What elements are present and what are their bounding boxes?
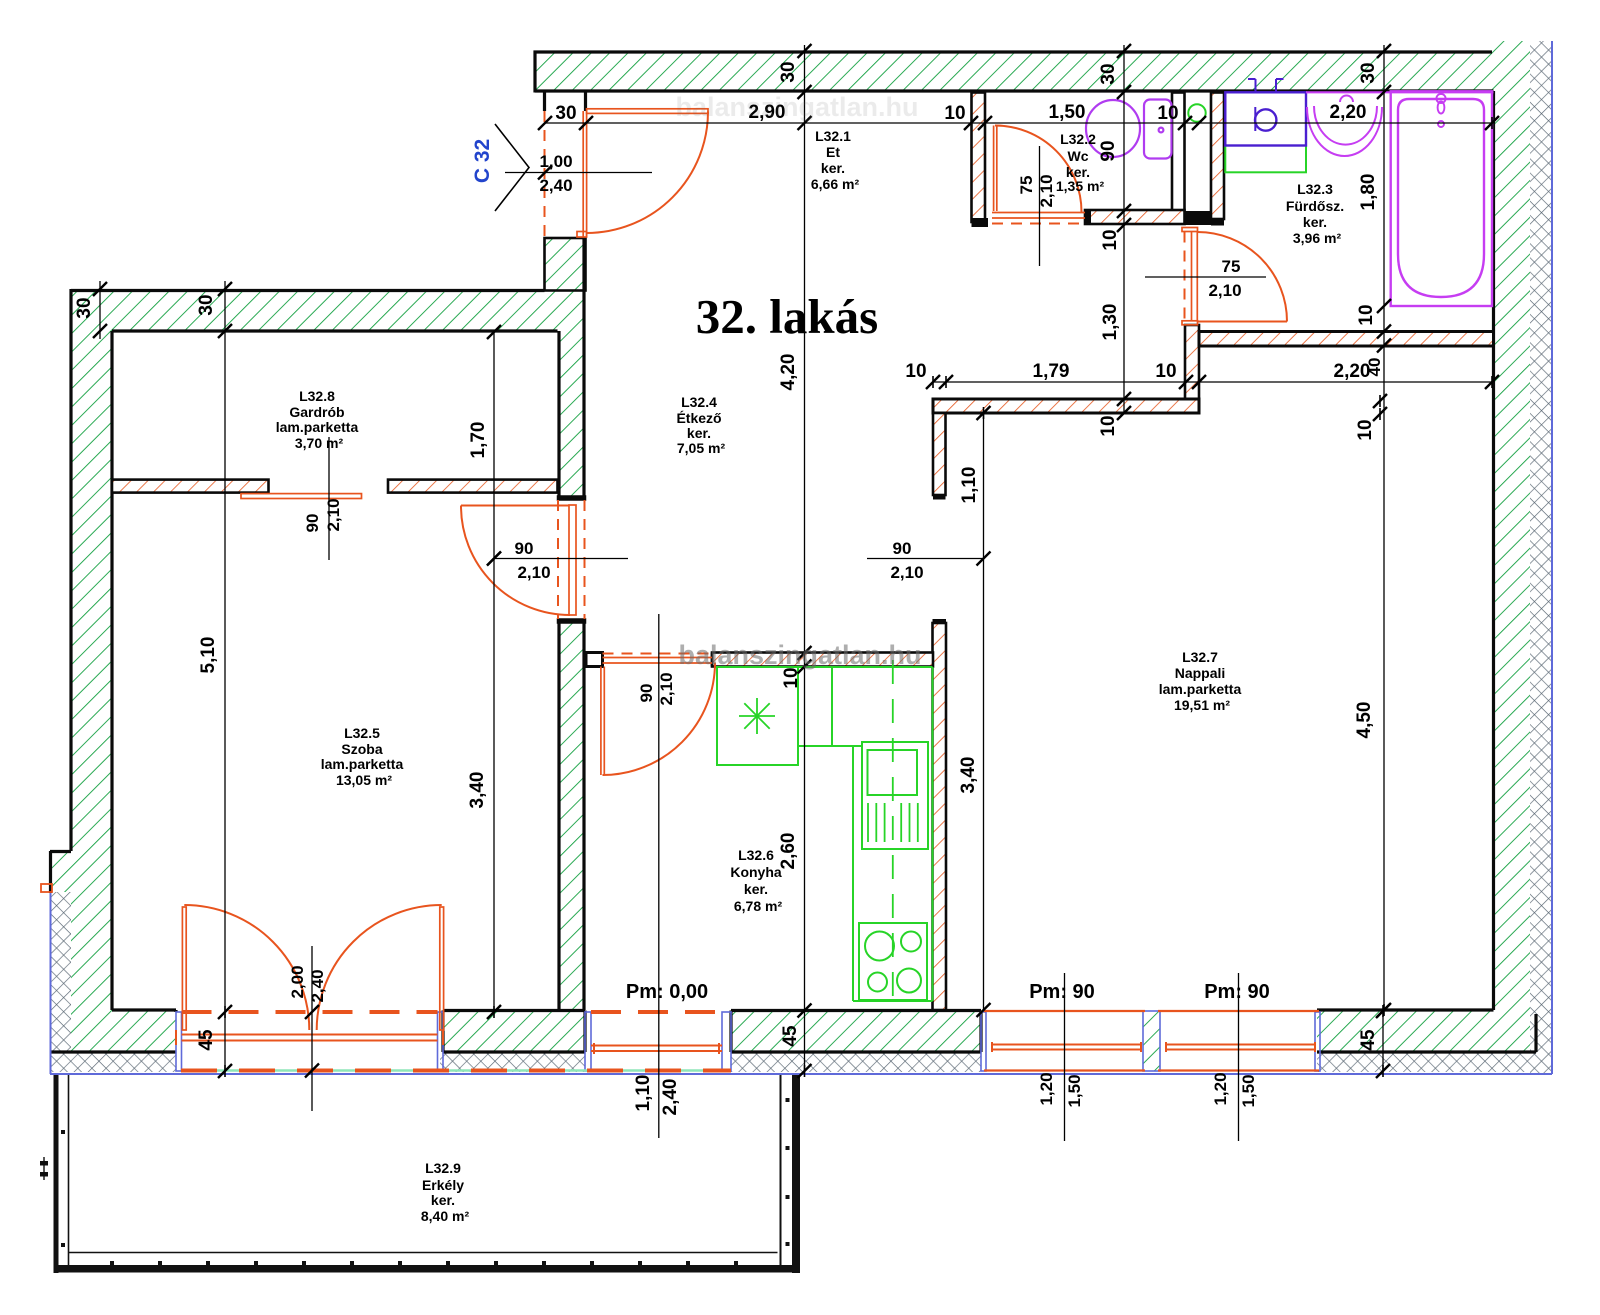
svg-text:30: 30 bbox=[196, 294, 217, 315]
dim line pm90 window1 bbox=[1064, 973, 1066, 1141]
wall left band hatch bbox=[71, 289, 112, 1052]
svg-text:10: 10 bbox=[905, 361, 926, 382]
ticks szoba door dim bbox=[487, 552, 501, 566]
fixture bathtub bbox=[1391, 91, 1492, 306]
door konyha swing arc bbox=[603, 663, 716, 776]
svg-text:Szoba: Szoba bbox=[341, 741, 382, 757]
svg-text:2,10: 2,10 bbox=[1208, 281, 1241, 300]
wall wc right bbox=[1172, 93, 1185, 212]
wall hall-bath column bbox=[1185, 325, 1199, 413]
dim line vertical x1384 bbox=[1383, 45, 1385, 1010]
svg-text:L32.1: L32.1 bbox=[815, 128, 851, 144]
dim line 45 right bbox=[1382, 1011, 1384, 1071]
svg-text:75: 75 bbox=[1017, 176, 1036, 195]
ticks row y382 bbox=[926, 375, 940, 389]
wall konyha right bbox=[933, 619, 947, 1010]
door wc leaf bbox=[993, 126, 995, 212]
blue outer bottom line bbox=[50, 1073, 1552, 1075]
door balcony right swing arc bbox=[317, 905, 442, 1030]
wall entry column outline bbox=[545, 238, 586, 291]
svg-text:32. lakás: 32. lakás bbox=[696, 289, 878, 344]
dim line vertical x983.5 bbox=[983, 413, 985, 1010]
door wc swing arc bbox=[995, 126, 1082, 213]
door konyha leaf bbox=[600, 667, 602, 776]
wall bottom blocks outlines bbox=[443, 1009, 585, 1012]
bathroom green cabinet bbox=[1225, 146, 1306, 173]
svg-text:40: 40 bbox=[1365, 358, 1384, 377]
door szoba open position line bbox=[461, 505, 569, 507]
balcony parapet dots bbox=[110, 1261, 738, 1265]
wall bathroom left bbox=[1211, 93, 1224, 226]
svg-text:1,30: 1,30 bbox=[1100, 304, 1121, 341]
dim line vertical x225 bbox=[224, 281, 226, 1071]
wall left band outlines bbox=[71, 289, 545, 292]
svg-text:2,10: 2,10 bbox=[657, 672, 676, 705]
svg-text:2,20: 2,20 bbox=[1330, 102, 1367, 123]
door entry leaf bbox=[587, 109, 708, 114]
window nappali 2 sill lines bbox=[1166, 1044, 1315, 1046]
svg-text:ker.: ker. bbox=[1303, 214, 1327, 230]
ticks x1124 bbox=[1117, 44, 1131, 58]
insulation left lower crosshatch bbox=[50, 892, 71, 1072]
svg-text:2,10: 2,10 bbox=[324, 498, 343, 531]
dim line left 30 bbox=[99, 281, 101, 339]
blue mullion pier outline bbox=[1143, 1011, 1160, 1071]
svg-text:C 32: C 32 bbox=[471, 139, 494, 183]
wall szoba-etkezo column outline bbox=[557, 331, 560, 496]
svg-text:45: 45 bbox=[780, 1025, 801, 1047]
wall nappali top bbox=[933, 399, 1199, 413]
ticks x983.5 bbox=[977, 406, 991, 420]
svg-text:Fürdősz.: Fürdősz. bbox=[1286, 198, 1344, 214]
svg-text:1,80: 1,80 bbox=[1358, 174, 1379, 211]
door bathroom dashed opening bbox=[1184, 232, 1186, 321]
blue jamb kitchen window left bbox=[585, 1012, 591, 1071]
ticks x804 bbox=[798, 44, 812, 58]
fixture washing machine bbox=[1225, 79, 1306, 146]
wall nappali stub bbox=[933, 413, 946, 500]
balcony right wall bbox=[792, 1075, 800, 1273]
blue jamb nappali window left bbox=[981, 1012, 986, 1071]
svg-text:ker.: ker. bbox=[744, 881, 768, 897]
dim line vertical x1124 bbox=[1123, 45, 1125, 413]
door balcony right leaf bbox=[440, 907, 444, 1030]
balcony facade dashed orange line bbox=[181, 1069, 731, 1073]
ticks right small chain bbox=[1373, 394, 1387, 408]
blue jamb nappali window right bbox=[1315, 1012, 1320, 1071]
svg-text:1,79: 1,79 bbox=[1033, 361, 1070, 382]
svg-text:L32.2: L32.2 bbox=[1060, 131, 1096, 147]
blue jamb kitchen window right bbox=[722, 1012, 731, 1071]
window balcony-door sill lines bbox=[182, 1034, 438, 1036]
svg-text:10: 10 bbox=[1155, 361, 1176, 382]
wall bottom block B hatch bbox=[443, 1012, 585, 1052]
window nappali 2 top line bbox=[1158, 1010, 1319, 1012]
svg-text:1,10: 1,10 bbox=[959, 467, 980, 504]
kitchen counter front edge bbox=[831, 667, 833, 746]
svg-text:6,78 m²: 6,78 m² bbox=[734, 898, 783, 914]
svg-text:8,40 m²: 8,40 m² bbox=[421, 1208, 470, 1224]
svg-text:1,50: 1,50 bbox=[1049, 102, 1086, 123]
svg-text:10: 10 bbox=[1157, 103, 1178, 124]
svg-text:1,50: 1,50 bbox=[1065, 1074, 1084, 1107]
kitchen stove bbox=[859, 923, 927, 1000]
svg-text:Konyha: Konyha bbox=[730, 864, 782, 880]
window nappali 1 bottom line bbox=[984, 1069, 1145, 1071]
wall wc left bbox=[972, 93, 989, 228]
insulation bottom crosshatch bbox=[50, 1052, 176, 1072]
svg-text:Étkező: Étkező bbox=[676, 410, 721, 426]
svg-text:1,50: 1,50 bbox=[1239, 1074, 1258, 1107]
wall gardrob strip right bbox=[388, 480, 558, 493]
window kitchen sill lines bbox=[591, 1045, 722, 1047]
dim line bath door bbox=[1145, 276, 1266, 278]
ticks balcony door bbox=[305, 1005, 319, 1019]
svg-text:10: 10 bbox=[1100, 229, 1121, 250]
wall bathroom bottom bbox=[1199, 332, 1494, 347]
door bathroom open position line bbox=[1198, 321, 1288, 323]
fixture bathroom sink bbox=[1306, 92, 1494, 156]
ticks left 30 bbox=[93, 282, 107, 296]
wall szoba-etkezo column upper hatch bbox=[558, 332, 586, 496]
svg-text:75: 75 bbox=[1222, 257, 1241, 276]
svg-text:L32.6: L32.6 bbox=[738, 847, 774, 863]
balcony bottom parapet bbox=[69, 1252, 778, 1254]
door gardrob sliding leaf bbox=[241, 494, 362, 499]
ticks 45 right bbox=[1376, 1004, 1390, 1018]
svg-text:balanszingatlan.hu: balanszingatlan.hu bbox=[678, 640, 921, 670]
wall entry column hatch bbox=[545, 237, 586, 332]
svg-text:1,35 m²: 1,35 m² bbox=[1056, 178, 1105, 194]
svg-text:30: 30 bbox=[555, 103, 576, 124]
svg-text:3,40: 3,40 bbox=[467, 772, 488, 809]
svg-text:2,40: 2,40 bbox=[308, 969, 327, 1002]
wall gardrob top band hatch bbox=[112, 289, 585, 332]
wall left lower step bbox=[50, 850, 71, 853]
fixture toilet bbox=[1086, 100, 1172, 159]
window kitchen top dashed wall line bbox=[591, 1010, 722, 1014]
blue outer right line bbox=[1551, 41, 1553, 1074]
svg-text:30: 30 bbox=[1098, 63, 1119, 84]
svg-text:L32.4: L32.4 bbox=[681, 394, 717, 410]
svg-text:Erkély: Erkély bbox=[422, 1177, 464, 1193]
svg-text:2,10: 2,10 bbox=[517, 563, 550, 582]
svg-text:13,05 m²: 13,05 m² bbox=[336, 772, 392, 788]
blue outer left lower line bbox=[50, 893, 52, 1074]
dim line vertical x494 bbox=[493, 332, 495, 1012]
dim line nappali door bbox=[867, 558, 984, 560]
svg-text:balanszingatlan.hu: balanszingatlan.hu bbox=[675, 92, 918, 122]
svg-text:5,10: 5,10 bbox=[198, 637, 219, 674]
wall bottom right inner lines bbox=[1317, 1008, 1494, 1011]
svg-text:90: 90 bbox=[303, 514, 322, 533]
door konyha dashed bbox=[603, 653, 713, 655]
wall wc bottom bbox=[1085, 210, 1185, 224]
kitchen counter top edge bbox=[717, 666, 933, 668]
ticks nappali door dim bbox=[977, 552, 991, 566]
balcony facade mint line bbox=[181, 1069, 731, 1071]
svg-text:L32.9: L32.9 bbox=[425, 1160, 461, 1176]
svg-text:Nappali: Nappali bbox=[1175, 665, 1226, 681]
wall konyha top bbox=[712, 653, 933, 667]
ticks top chain bbox=[538, 116, 552, 130]
svg-text:ker.: ker. bbox=[431, 1192, 455, 1208]
window nappali 2 bottom line bbox=[1158, 1069, 1319, 1071]
svg-text:Wc: Wc bbox=[1068, 148, 1089, 164]
svg-text:30: 30 bbox=[74, 297, 95, 318]
svg-text:2,40: 2,40 bbox=[539, 176, 572, 195]
door szoba swing arc bbox=[461, 506, 570, 616]
dim line vertical x804 bbox=[804, 45, 806, 1071]
svg-text:1,70: 1,70 bbox=[468, 422, 489, 459]
svg-text:1,20: 1,20 bbox=[1211, 1072, 1230, 1105]
wall bottom block C hatch bbox=[731, 1012, 981, 1052]
door entry dashed opening bbox=[544, 111, 546, 237]
door bathroom leaf bbox=[1191, 232, 1193, 322]
wall top-right corner hatch bbox=[1492, 41, 1530, 93]
svg-text:90: 90 bbox=[1098, 140, 1119, 161]
svg-text:lam.parketta: lam.parketta bbox=[276, 419, 359, 435]
kitchen table bbox=[717, 667, 798, 765]
svg-text:Gardrób: Gardrób bbox=[289, 404, 344, 420]
svg-text:L32.8: L32.8 bbox=[299, 388, 335, 404]
svg-text:10: 10 bbox=[781, 667, 802, 688]
svg-text:3,40: 3,40 bbox=[958, 757, 979, 794]
door wc dashed bbox=[992, 223, 1085, 225]
svg-text:Pm: 90: Pm: 90 bbox=[1204, 981, 1270, 1003]
dim line konyha door / Pm0 bbox=[658, 614, 660, 1138]
radiator stub left wall bbox=[41, 884, 52, 892]
svg-text:3,70 m²: 3,70 m² bbox=[295, 435, 344, 451]
insulation right crosshatch bbox=[1530, 41, 1551, 1073]
svg-text:Pm: 0,00: Pm: 0,00 bbox=[626, 981, 708, 1003]
ticks entry door dim bbox=[538, 166, 552, 180]
svg-text:45: 45 bbox=[196, 1029, 217, 1051]
svg-text:ker.: ker. bbox=[687, 425, 711, 441]
door bathroom frame ticks bbox=[1182, 228, 1198, 232]
door wc sill bbox=[992, 212, 1085, 214]
wall szoba-konyha column outline bbox=[558, 619, 586, 623]
kitchen fridge-oven unit bbox=[862, 742, 928, 849]
door entry frame bbox=[582, 111, 584, 237]
wall bottom-left corner block hatch bbox=[71, 1010, 176, 1052]
door szoba leaf bbox=[569, 505, 576, 615]
svg-text:4,50: 4,50 bbox=[1354, 702, 1375, 739]
svg-text:L32.3: L32.3 bbox=[1297, 181, 1333, 197]
svg-text:30: 30 bbox=[1358, 62, 1379, 83]
wall top band outline bbox=[534, 50, 1493, 53]
balcony section marker glyph bbox=[40, 1161, 48, 1166]
svg-text:10: 10 bbox=[944, 103, 965, 124]
door szoba dashed opening bbox=[557, 500, 559, 619]
dim line balcony door center bbox=[311, 946, 313, 1111]
svg-text:ker.: ker. bbox=[821, 160, 845, 176]
svg-text:lam.parketta: lam.parketta bbox=[321, 756, 404, 772]
blue jamb balcony door left bbox=[176, 1012, 182, 1071]
dim line gardrob door bbox=[328, 437, 330, 560]
ticks x225 bbox=[218, 282, 232, 296]
door bathroom swing arc bbox=[1198, 232, 1288, 322]
svg-text:4,20: 4,20 bbox=[778, 354, 799, 391]
svg-text:90: 90 bbox=[637, 684, 656, 703]
svg-text:L32.5: L32.5 bbox=[344, 725, 380, 741]
wall szoba-konyha column lower hatch bbox=[558, 623, 586, 1010]
window balcony-door top dashed wall line bbox=[182, 1010, 438, 1014]
dim line entry door bbox=[505, 172, 652, 174]
wall konyha door stub bbox=[586, 653, 603, 667]
svg-text:lam.parketta: lam.parketta bbox=[1159, 681, 1242, 697]
svg-text:L32.7: L32.7 bbox=[1182, 649, 1218, 665]
svg-text:45: 45 bbox=[1358, 1029, 1379, 1051]
svg-text:2,10: 2,10 bbox=[890, 563, 923, 582]
door balcony left leaf bbox=[182, 907, 186, 1030]
svg-text:90: 90 bbox=[515, 539, 534, 558]
ticks x494 bbox=[487, 325, 501, 339]
dim chain top horizontal bbox=[545, 122, 1492, 124]
svg-text:1,20: 1,20 bbox=[1037, 1072, 1056, 1105]
kitchen star symbol bbox=[739, 698, 775, 734]
wall bottom-left corner block bbox=[112, 1008, 176, 1011]
wall gardrob strip left bbox=[112, 480, 269, 493]
dim line pm90 window2 bbox=[1238, 973, 1240, 1141]
green circle shaft symbol bbox=[1188, 104, 1205, 121]
svg-text:2,10: 2,10 bbox=[1037, 174, 1056, 207]
svg-text:Et: Et bbox=[826, 144, 840, 160]
dim line szoba door bbox=[494, 558, 628, 560]
svg-text:1,00: 1,00 bbox=[539, 152, 572, 171]
svg-text:2,40: 2,40 bbox=[660, 1079, 681, 1116]
window mullion pier hatch bbox=[1143, 1011, 1160, 1071]
wall shaft bottom cap bbox=[1185, 211, 1212, 225]
door balcony left swing arc bbox=[184, 905, 309, 1030]
svg-text:2,00: 2,00 bbox=[288, 965, 307, 998]
door konyha sill bbox=[603, 657, 713, 659]
window nappali 1 top line bbox=[984, 1010, 1145, 1012]
wall right band inner line bbox=[1492, 91, 1495, 1010]
door entry swing arc bbox=[587, 112, 709, 234]
svg-text:7,05 m²: 7,05 m² bbox=[677, 440, 726, 456]
svg-text:3,96 m²: 3,96 m² bbox=[1293, 230, 1342, 246]
svg-text:Pm: 90: Pm: 90 bbox=[1029, 981, 1095, 1003]
blue jamb balcony door right bbox=[438, 1012, 444, 1071]
svg-text:10: 10 bbox=[1356, 304, 1377, 325]
wall entry stubs at top band bbox=[543, 93, 546, 112]
dim line wc door bbox=[1039, 146, 1041, 266]
svg-text:90: 90 bbox=[893, 539, 912, 558]
svg-text:1,10: 1,10 bbox=[633, 1075, 654, 1112]
svg-text:6,66 m²: 6,66 m² bbox=[811, 176, 860, 192]
marker chevron bbox=[495, 124, 529, 211]
ticks x1384 bbox=[1377, 44, 1391, 58]
svg-text:10: 10 bbox=[1098, 415, 1119, 436]
window nappali 1 sill lines bbox=[992, 1044, 1141, 1046]
wall top band hatch bbox=[535, 51, 1492, 93]
svg-text:19,51 m²: 19,51 m² bbox=[1174, 697, 1230, 713]
wall bottom-right corner hatch bbox=[1317, 1010, 1536, 1052]
dim chain row y382 bbox=[933, 381, 1492, 383]
svg-text:10: 10 bbox=[1355, 419, 1376, 440]
balcony left wall bbox=[54, 1075, 59, 1273]
kitchen center dashed line bbox=[892, 660, 894, 1006]
svg-text:30: 30 bbox=[778, 61, 799, 82]
wall right band hatch bbox=[1494, 93, 1531, 1011]
